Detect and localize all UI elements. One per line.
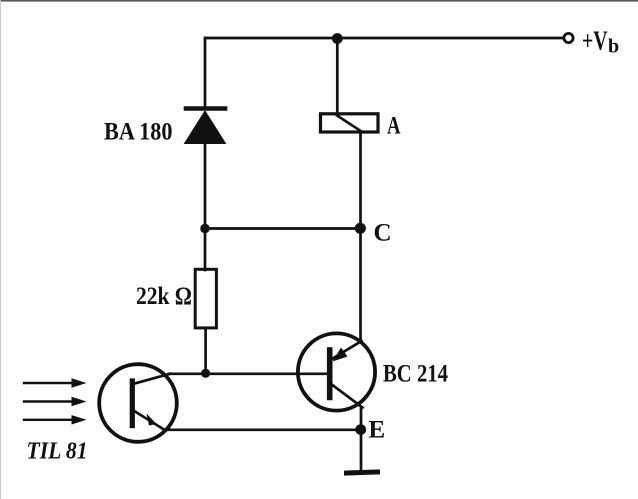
ground [347, 472, 378, 473]
resistor 22k [195, 269, 216, 328]
light arrow 3 [24, 415, 87, 424]
svg-text:TIL 81: TIL 81 [27, 439, 88, 465]
svg-text:E: E [369, 417, 386, 444]
transistor BC 214 [298, 333, 375, 410]
svg-text:22k Ω: 22k Ω [136, 283, 192, 310]
wire: node C horizontal [205, 227, 361, 230]
wire: ground lead [360, 430, 363, 471]
wire: base wire from phototransistor collector to BC214 base [169, 372, 328, 375]
svg-text:b: b [608, 36, 619, 58]
phototransistor TIL 81 [99, 364, 177, 442]
wire: emitter horizontal from TIL81 to node E [164, 428, 362, 431]
wire: top supply rail [205, 37, 564, 40]
wire: resistor bottom lead [204, 328, 207, 374]
terminal +Vb open circle [564, 33, 573, 42]
svg-text:+V: +V [582, 26, 608, 56]
wire: relay top lead [336, 38, 339, 114]
wire: resistor top lead [204, 229, 207, 271]
light arrow 2 [24, 397, 87, 406]
diode BA 180 [185, 109, 226, 229]
svg-text:BC 214: BC 214 [383, 361, 448, 388]
node dot at diode/resistor junction [200, 224, 210, 234]
wire: BC214 bottom lead to node E [360, 407, 363, 430]
wire: BC214 top lead to node C [359, 229, 362, 342]
svg-text:A: A [387, 113, 401, 140]
wire: relay bottom lead [359, 132, 362, 229]
light arrow 1 [24, 378, 87, 387]
node C junction dot [355, 223, 366, 234]
svg-text:BA 180: BA 180 [104, 119, 173, 146]
relay coil A [321, 114, 379, 132]
node E junction dot [355, 424, 366, 435]
junction dot on top rail [332, 33, 343, 44]
wire: vertical from rail to diode [204, 38, 207, 106]
svg-text:C: C [374, 220, 392, 247]
junction dot resistor/base [201, 369, 210, 378]
